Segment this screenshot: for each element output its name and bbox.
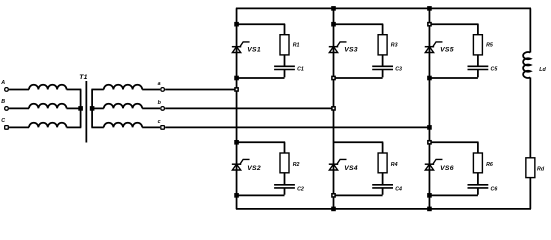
svg-text:C3: C3	[395, 67, 402, 73]
resistor R5	[473, 35, 482, 55]
wire snubber top (R3)	[334, 24, 384, 35]
transformer T1 label	[79, 74, 87, 81]
capacitor C2	[274, 185, 295, 188]
junction col2 snubber3 top	[331, 22, 336, 27]
wire phase a to bridge column 1	[165, 88, 236, 90]
junction col1 snubber2 bottom	[234, 193, 239, 198]
wire terminal A to primary winding	[9, 88, 29, 90]
svg-text:VS3: VS3	[344, 47, 358, 54]
wire snubber bottom (C1)	[237, 70, 285, 79]
svg-text:R3: R3	[391, 43, 398, 49]
resistor R6	[473, 153, 482, 173]
label C1	[297, 67, 304, 73]
wire top bus to Ld	[529, 8, 531, 52]
wire R4 to C4	[382, 173, 384, 185]
junction col1 snubber1 bottom	[234, 76, 239, 81]
wire secondary winding a to terminal a	[142, 88, 160, 90]
junction secondary star point	[90, 106, 95, 111]
svg-text:VS5: VS5	[440, 47, 454, 54]
label R3	[391, 43, 398, 49]
capacitor C1	[274, 66, 295, 69]
terminal B	[5, 107, 9, 111]
wire snubber top (R4)	[334, 142, 384, 153]
label B	[1, 99, 5, 105]
svg-text:VS1: VS1	[247, 47, 261, 54]
label b	[158, 100, 162, 106]
wire secondary winding b to terminal b	[142, 107, 160, 109]
resistor R4	[378, 153, 387, 173]
label Ld	[539, 67, 546, 73]
wire snubber bottom (C5)	[429, 70, 477, 79]
wire primary winding C to star bus	[67, 126, 82, 128]
label c	[158, 119, 161, 125]
primary winding B (T1)	[29, 104, 67, 109]
terminal A	[5, 88, 9, 92]
label a	[158, 81, 161, 87]
svg-text:R1: R1	[293, 43, 300, 49]
wire snubber bottom (C4)	[334, 188, 383, 195]
wire phase c to bridge column 3	[165, 126, 429, 128]
wire secondary winding c to terminal c	[142, 126, 160, 128]
wire R2 to C2	[284, 173, 286, 185]
junction col3 top bus	[427, 6, 432, 11]
svg-text:Rd: Rd	[537, 166, 545, 172]
label VS4	[344, 165, 358, 172]
svg-text:VS2: VS2	[247, 165, 261, 172]
wire secondary bus to winding b	[91, 107, 103, 109]
secondary star bus	[91, 89, 93, 127]
wire snubber top (R1)	[237, 24, 286, 35]
junction node phase c col3	[427, 125, 432, 130]
capacitor C5	[468, 66, 489, 69]
thyristor VS1	[232, 42, 250, 53]
junction col3 snubber5 bottom	[427, 76, 432, 81]
junction primary star point	[78, 106, 83, 111]
svg-text:a: a	[158, 81, 161, 87]
label R6	[486, 162, 493, 168]
wire R6 to C6	[477, 173, 479, 185]
wire terminal B to primary winding	[9, 107, 29, 109]
junction col2 top bus	[331, 6, 336, 11]
wire phase b to bridge column 2	[165, 107, 333, 109]
wire R5 to C5	[477, 55, 479, 66]
wire terminal C to primary winding	[9, 126, 29, 128]
wire R1 to C1	[284, 55, 286, 66]
label R5	[486, 43, 494, 49]
node phase b col2	[332, 107, 335, 110]
primary winding C (T1)	[29, 123, 67, 128]
wire snubber top (R6)	[429, 142, 478, 153]
primary star bus	[80, 89, 82, 127]
wire primary winding B to star bus	[67, 107, 82, 109]
junction col1 snubber1 top	[234, 22, 239, 27]
wire R3 to C3	[382, 55, 384, 66]
junction col2 bottom bus	[331, 207, 336, 212]
junction col1 snubber2 top	[234, 140, 239, 145]
svg-text:C2: C2	[297, 186, 304, 192]
wire snubber top (R5)	[429, 24, 478, 35]
label VS1	[247, 47, 261, 54]
label Rd	[537, 166, 545, 172]
label R2	[293, 162, 300, 168]
bridge column 1 wire	[236, 8, 238, 209]
node col3 snubber6 top	[428, 141, 431, 144]
label C3	[395, 67, 402, 73]
bridge column 2 wire	[333, 8, 335, 209]
label C6	[491, 186, 498, 192]
svg-text:VS4: VS4	[344, 165, 358, 172]
wire snubber bottom (C6)	[429, 188, 477, 195]
label A	[0, 80, 5, 86]
svg-text:C1: C1	[297, 67, 304, 73]
svg-text:R2: R2	[293, 162, 300, 168]
bridge column 3 wire	[428, 8, 430, 209]
svg-text:Ld: Ld	[539, 67, 546, 73]
wire primary winding A to star bus	[67, 88, 82, 90]
resistor Rd	[526, 158, 535, 178]
svg-text:c: c	[158, 119, 161, 125]
resistor R2	[280, 153, 289, 173]
label VS3	[344, 47, 358, 54]
node col2 snubber3 bottom	[332, 76, 335, 79]
wire snubber bottom (C2)	[237, 188, 285, 195]
positive bus (top)	[236, 7, 531, 9]
svg-text:T1: T1	[79, 74, 87, 81]
secondary winding c (T1)	[104, 123, 142, 128]
node col2 snubber4 bottom	[332, 194, 335, 197]
thyristor VS5	[425, 42, 443, 53]
inductor Ld	[523, 52, 530, 78]
wire Rd to bottom bus	[529, 178, 531, 209]
terminal a	[161, 88, 165, 92]
wire secondary bus to winding c	[91, 126, 103, 128]
primary winding A (T1)	[29, 85, 67, 90]
node col3 snubber5 top	[428, 23, 431, 26]
label VS2	[247, 165, 261, 172]
terminal c	[161, 126, 165, 130]
label R1	[293, 43, 300, 49]
wire snubber top (R2)	[237, 142, 286, 153]
terminal b	[161, 107, 165, 111]
svg-text:B: B	[1, 99, 5, 105]
label C4	[395, 186, 402, 192]
label VS6	[440, 165, 454, 172]
svg-text:R5: R5	[486, 43, 494, 49]
secondary winding a (T1)	[104, 85, 142, 90]
thyristor VS2	[232, 159, 250, 170]
node phase a col1	[235, 88, 238, 91]
capacitor C4	[372, 185, 393, 188]
negative bus (bottom)	[236, 208, 531, 210]
resistor R3	[378, 35, 387, 55]
wire secondary bus to winding a	[91, 88, 103, 90]
svg-text:C6: C6	[491, 186, 498, 192]
svg-text:R4: R4	[391, 162, 398, 168]
svg-text:C5: C5	[491, 67, 499, 73]
svg-text:VS6: VS6	[440, 165, 454, 172]
label VS5	[440, 47, 454, 54]
thyristor VS6	[425, 159, 443, 170]
wire snubber bottom (C3)	[334, 70, 383, 79]
junction col3 snubber6 bottom	[427, 193, 432, 198]
svg-text:A: A	[0, 80, 5, 86]
junction col3 bottom bus	[427, 207, 432, 212]
capacitor C6	[468, 185, 489, 188]
thyristor VS3	[329, 42, 347, 53]
label C2	[297, 186, 304, 192]
terminal C	[5, 126, 9, 130]
core T1	[85, 81, 87, 143]
wire Ld to Rd	[529, 78, 531, 158]
label C	[1, 118, 5, 124]
capacitor C3	[372, 66, 393, 69]
svg-text:R6: R6	[486, 162, 493, 168]
svg-text:C4: C4	[395, 186, 402, 192]
resistor R1	[280, 35, 289, 55]
svg-text:C: C	[1, 118, 5, 124]
label C5	[491, 67, 499, 73]
label R4	[391, 162, 398, 168]
secondary winding b (T1)	[104, 104, 142, 109]
thyristor VS4	[329, 159, 347, 170]
